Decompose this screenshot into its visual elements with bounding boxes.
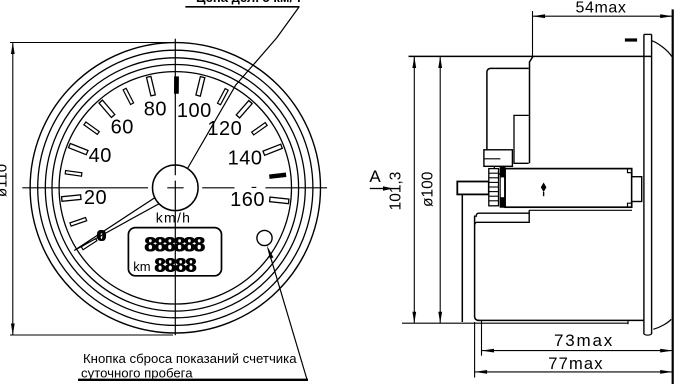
- motor body: [505, 169, 632, 208]
- mounting bracket: [475, 210, 530, 225]
- svg-text:60: 60: [111, 116, 134, 138]
- horizontal centerline of dial: [22, 187, 148, 189]
- odometer window: [128, 228, 221, 276]
- leader line from reset button to note: [268, 249, 307, 380]
- svg-text:km: km: [133, 259, 150, 274]
- svg-text:101,3: 101,3: [388, 172, 405, 211]
- motor bottom double line: [529, 209, 632, 211]
- dimension ø110 extension top: [10, 42, 171, 44]
- svg-text:54max: 54max: [575, 0, 626, 16]
- rear cover outline: [487, 68, 529, 151]
- tick 100 major: [196, 77, 205, 97]
- dial ring 4: [52, 65, 299, 312]
- dimension ø100 line: [439, 56, 441, 323]
- tick 10: [70, 218, 87, 227]
- svg-text:Кнопка сброса показаний счетчи: Кнопка сброса показаний счетчика: [83, 351, 297, 366]
- bezel lip top curve: [652, 41, 672, 57]
- dial ring 5 (inner): [59, 72, 291, 304]
- tick 60 major: [99, 100, 115, 117]
- vertical centerline of dial: [174, 39, 176, 176]
- tick 70: [123, 88, 134, 104]
- svg-text:20: 20: [84, 187, 107, 209]
- svg-text:суточного пробега: суточного пробега: [81, 365, 193, 380]
- dimension ø110 extension bottom: [10, 334, 173, 336]
- case top line / dim extension: [409, 55, 652, 57]
- note underline: [78, 379, 308, 381]
- tick 80 major: [147, 76, 156, 96]
- motor end cap: [632, 177, 642, 202]
- dial ring 3: [45, 58, 305, 318]
- rear silhouette line below shaft: [461, 194, 463, 322]
- tick 150 solid: [270, 173, 286, 178]
- svg-text:ø110: ø110: [0, 164, 11, 197]
- seam notch: [627, 320, 629, 324]
- tick 30: [65, 171, 82, 177]
- svg-text:ø100: ø100: [420, 171, 437, 207]
- bezel front face: [672, 9, 674, 384]
- drive shaft: [457, 182, 489, 195]
- tick 0: [81, 238, 97, 250]
- svg-text:40: 40: [89, 145, 112, 167]
- svg-text:0: 0: [97, 228, 106, 245]
- svg-text:Цена дел. 5 км/ч: Цена дел. 5 км/ч: [196, 0, 301, 5]
- bezel lip bottom curve: [653, 319, 671, 329]
- dimension 77max: [474, 322, 476, 378]
- svg-text:160: 160: [230, 189, 265, 211]
- tick 130: [252, 123, 268, 135]
- hidden edge dash: [625, 38, 637, 41]
- tick 140 major: [263, 144, 282, 155]
- svg-text:77max: 77max: [548, 355, 604, 373]
- inner component rectangle: [514, 115, 529, 163]
- svg-text:140: 140: [228, 148, 263, 170]
- tick 50: [84, 122, 99, 134]
- tick 90 solid: [174, 77, 178, 94]
- tick 20 major: [62, 195, 81, 202]
- dimension 54max: [532, 11, 534, 56]
- terminal block: [484, 150, 513, 167]
- case bottom edge: [477, 319, 644, 321]
- case lower-left wall: [475, 216, 480, 321]
- case bottom seam / dim extension: [402, 322, 628, 324]
- dial ring 2: [38, 50, 313, 325]
- tick 120 major: [236, 101, 252, 118]
- svg-text:A: A: [369, 167, 381, 186]
- flange (mounting ring): [643, 34, 645, 334]
- needle pointing at 0: [74, 197, 159, 250]
- needle hub: [153, 165, 199, 211]
- block step: [494, 166, 505, 174]
- tick 160 major: [270, 197, 289, 204]
- svg-text:73max: 73max: [554, 331, 614, 350]
- reset button: [257, 230, 272, 245]
- view A arrow: [370, 188, 385, 190]
- top leader label underline: [185, 0, 300, 7]
- dial ring 1 (outer): [30, 43, 320, 333]
- svg-text:888888: 888888: [144, 234, 205, 257]
- tick 40 major: [69, 144, 89, 155]
- orientation mark on motor: [541, 183, 547, 193]
- tick 110: [218, 89, 229, 105]
- leader line from top label to needle hub: [182, 7, 299, 178]
- knurled nut: [489, 169, 499, 206]
- case rear wall with chamfer: [530, 56, 534, 163]
- dimension ø110 line: [12, 43, 14, 336]
- svg-text:80: 80: [144, 98, 167, 120]
- dimension 73max: [481, 320, 483, 356]
- washer flange: [500, 167, 505, 207]
- dimension 101,3 line: [413, 56, 415, 323]
- svg-text:120: 120: [207, 118, 242, 140]
- svg-text:km/h: km/h: [156, 210, 192, 226]
